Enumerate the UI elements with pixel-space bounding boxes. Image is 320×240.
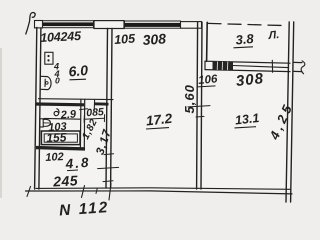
svg-text:104245: 104245: [40, 29, 82, 45]
top wall corner box: [35, 21, 43, 28]
svg-text:106: 106: [198, 73, 219, 87]
break squiggle right: [301, 61, 305, 74]
ticks on wall1: [104, 153, 114, 156]
svg-text:6.0: 6.0: [68, 62, 89, 80]
left wall: [35, 28, 37, 190]
bathroom block bottom thick wall: [36, 148, 85, 149]
balcony left line: [206, 22, 209, 61]
sink glyph + area 2.9: [54, 109, 59, 116]
interior wall kitchen/hall vs room 17.2: [106, 29, 108, 189]
balcony sill wall (window of room 106): [205, 61, 290, 63]
svg-text:5,60: 5,60: [182, 84, 197, 113]
0.85 dimension underline with end ticks: [84, 117, 105, 120]
svg-text:3.8: 3.8: [235, 31, 255, 48]
svg-text:4.8: 4.8: [64, 155, 91, 172]
dim ticks bottom: [27, 187, 31, 197]
interior wall 17.2 vs 13.1: [197, 22, 198, 189]
balcony top dashed line: [208, 23, 286, 25]
svg-text:105: 105: [114, 31, 137, 46]
tick on bathroom wall: [80, 108, 88, 111]
right wall: [286, 22, 289, 202]
svg-text:17.2: 17.2: [145, 111, 173, 129]
svg-text:2.9: 2.9: [59, 108, 77, 121]
thick wall stub right of door: [95, 102, 109, 105]
wall break curve top-left: [26, 13, 35, 34]
top wall end segment: [181, 22, 202, 29]
svg-text:0: 0: [55, 76, 60, 86]
bathroom block right wall: [79, 100, 82, 149]
toilet: [40, 119, 43, 127]
scan edge smudge: [0, 48, 2, 198]
sill tick: [271, 60, 273, 72]
kitchen sink: [41, 76, 51, 89]
kitchen stove: [45, 52, 53, 64]
bathtub box 155: [41, 131, 80, 145]
window W1 (kitchen): [43, 21, 94, 28]
door jamb of 0.85 opening: [93, 100, 95, 110]
window W2 (room 17.2): [125, 21, 181, 28]
kitchen bottom wall thin line: [39, 98, 114, 101]
svg-text:308: 308: [142, 30, 167, 48]
kitchen bottom wall thick line: [36, 102, 84, 106]
svg-text:N 112: N 112: [59, 199, 110, 219]
bottom dimension line: [26, 191, 293, 194]
wall stub beyond right wall: [294, 61, 302, 63]
svg-text:Л.: Л.: [267, 29, 280, 42]
svg-text:085: 085: [86, 106, 104, 119]
svg-text:13.1: 13.1: [234, 111, 260, 127]
divider under 2.9: [44, 117, 80, 120]
svg-text:245: 245: [52, 172, 79, 189]
ticks on wall2: [188, 106, 210, 107]
svg-text:308: 308: [235, 70, 265, 90]
svg-text:155: 155: [46, 130, 67, 145]
svg-text:102: 102: [45, 151, 64, 164]
wall pier box: [94, 21, 124, 29]
bottom wall of rooms: [36, 188, 291, 190]
